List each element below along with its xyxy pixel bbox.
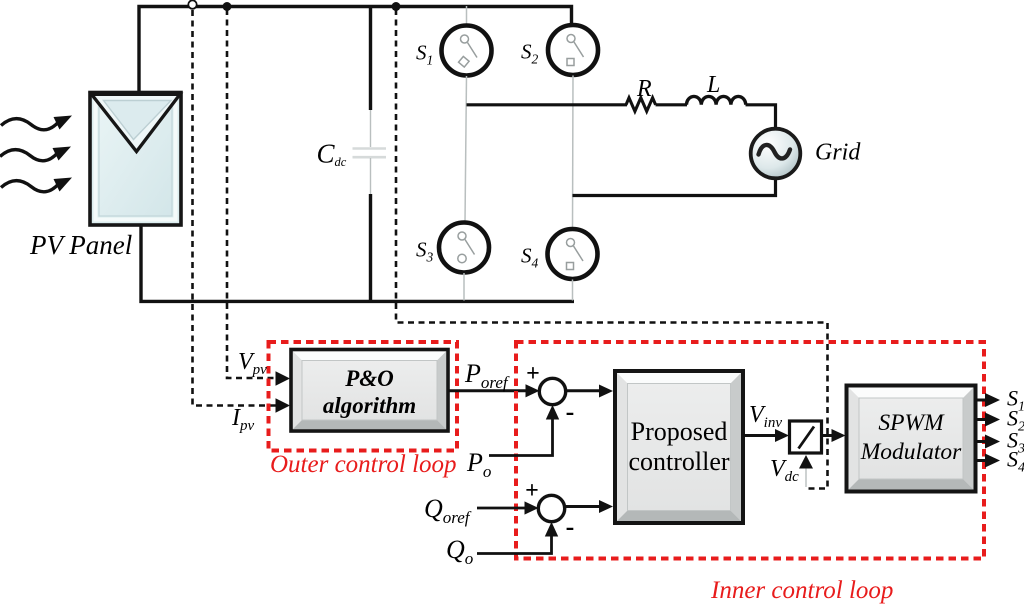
wire: grid bottom to S2/S4 leg xyxy=(573,179,776,196)
svg-text:L: L xyxy=(706,72,720,98)
resistor R xyxy=(626,98,656,112)
wire: Qo feedback into summer 2 xyxy=(477,535,552,554)
svg-text:Po: Po xyxy=(466,448,491,481)
svg-text:S4: S4 xyxy=(521,244,539,271)
summer 2 (reactive power) xyxy=(538,495,564,521)
svg-text:SPWM: SPWM xyxy=(878,410,945,436)
wire: thin right leg between S2 and S4 xyxy=(572,76,575,230)
svg-text:Ipv: Ipv xyxy=(231,405,255,434)
wire: thin left leg between S1 and S3 xyxy=(465,76,467,222)
wire: R to L xyxy=(656,103,688,106)
arrowhead: into SPWM modulator xyxy=(832,429,846,442)
wire: gate signal S4 out xyxy=(976,459,988,462)
svg-text:R: R xyxy=(636,76,652,102)
block: SPWM Modulator xyxy=(847,386,976,492)
svg-text:P&O: P&O xyxy=(344,366,394,391)
svg-text:Outer control loop: Outer control loop xyxy=(270,451,457,478)
svg-text:-: - xyxy=(566,512,575,541)
wire: Po feedback into summer 1 xyxy=(489,418,553,456)
svg-text:Proposed: Proposed xyxy=(631,417,728,446)
PV panel body xyxy=(90,93,181,226)
arrowhead: Qoref into summer 2 xyxy=(525,501,539,514)
arrowhead: Vpv into P&O xyxy=(276,371,291,385)
svg-text:Vinv: Vinv xyxy=(749,402,782,431)
switch S4 xyxy=(548,229,598,279)
svg-text:S1: S1 xyxy=(416,41,433,68)
svg-text:Vdc: Vdc xyxy=(770,456,799,485)
wire: Poref output of P&O xyxy=(448,389,528,392)
capacitor Cdc xyxy=(353,5,387,303)
svg-text:-: - xyxy=(566,397,575,426)
svg-text:Vpv: Vpv xyxy=(238,349,267,378)
arrowhead: into controller upper xyxy=(599,385,613,398)
wire: gate signal S2 out xyxy=(976,418,988,421)
svg-text:Modulator: Modulator xyxy=(860,439,962,465)
wire: dashed Vpv sense line xyxy=(227,9,281,378)
block: Proposed controller xyxy=(615,371,743,523)
wire: dashed Ipv sense line xyxy=(193,10,282,406)
svg-text:Grid: Grid xyxy=(815,140,861,166)
svg-text:+: + xyxy=(526,361,540,387)
wire: thin leg above S1 xyxy=(466,6,468,25)
switch S3 xyxy=(439,223,489,273)
svg-text:S3: S3 xyxy=(416,238,434,265)
svg-text:Inner control loop: Inner control loop xyxy=(710,577,893,604)
switch S1 xyxy=(442,26,492,76)
wire: Vdc arrow stem xyxy=(805,462,807,487)
wire: thin leg below S3 xyxy=(463,273,465,301)
arrowhead: Poref into summer 1 xyxy=(526,384,540,397)
node: sensor tap (open dot) on top rail for Ipv xyxy=(188,0,196,8)
block: divider (/) xyxy=(790,421,822,453)
wire: PV panel bottom to DC- rail xyxy=(141,226,574,301)
arrowhead: Ipv into P&O xyxy=(276,398,291,412)
svg-text:Poref: Poref xyxy=(464,359,510,392)
arrowhead: into controller lower xyxy=(599,500,613,513)
svg-text:Qoref: Qoref xyxy=(424,494,472,527)
wire: gate signal S3 out xyxy=(976,440,988,443)
node: junction dot on top rail for Vpv xyxy=(223,2,232,11)
block: P&O algorithm xyxy=(291,350,448,432)
wire: AC output upper (left leg midpoint to R) xyxy=(467,103,628,106)
wire: DC+ top rail from PV panel to S2 leg xyxy=(139,7,572,92)
wire: Qoref into summer 2 xyxy=(477,507,527,510)
wire: summer 2 to controller xyxy=(565,505,603,508)
arrowhead: into divider xyxy=(775,429,789,442)
arrowhead: Po up into summer 1 xyxy=(546,405,559,420)
inductor L xyxy=(687,96,746,104)
wire: dashed Vdc feedback line xyxy=(396,9,828,489)
wire: L to grid top xyxy=(746,105,776,129)
summer 1 (active power) xyxy=(539,378,565,404)
svg-text:Cdc: Cdc xyxy=(317,139,347,170)
svg-text:Qo: Qo xyxy=(446,535,473,568)
node: junction dot on top rail for Vdc feedback xyxy=(392,2,401,11)
sun ray arrow 1 xyxy=(1,119,59,130)
wire: Vinv from controller to divider xyxy=(743,434,778,437)
svg-text:S2: S2 xyxy=(521,40,539,67)
arrowhead: Vdc up into divider xyxy=(799,455,813,469)
inner control loop boundary (red dashed) xyxy=(516,342,984,559)
sun ray arrow 2 xyxy=(0,150,58,161)
wire: summer 1 to controller xyxy=(566,389,603,392)
svg-text:PV Panel: PV Panel xyxy=(29,230,132,260)
sun ray arrow 3 xyxy=(1,181,59,192)
svg-text:controller: controller xyxy=(628,447,729,476)
wire: thin leg below S4 xyxy=(572,280,574,301)
outer control loop boundary (red dashed) xyxy=(269,342,458,451)
wire: gate signal S1 out xyxy=(976,399,988,402)
arrowhead: Qo up into summer 2 xyxy=(545,522,558,537)
switch S2 xyxy=(548,25,598,75)
wire: divider to SPWM modulator xyxy=(822,434,835,437)
svg-text:+: + xyxy=(525,478,539,504)
AC source: Grid xyxy=(751,129,801,179)
svg-text:algorithm: algorithm xyxy=(323,393,416,418)
